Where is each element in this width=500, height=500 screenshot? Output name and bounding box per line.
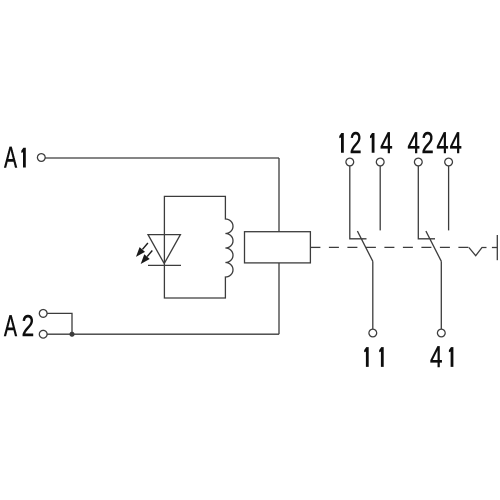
contact blade 1: [357, 231, 372, 261]
terminal 42 circle: [414, 158, 422, 166]
svg-text:4: 4: [408, 127, 420, 160]
svg-text:4: 4: [430, 341, 442, 374]
svg-text:A: A: [4, 310, 17, 343]
terminal A2 lower circle: [39, 330, 47, 338]
contact blade 2: [426, 231, 441, 261]
coil box with inductor bumps: [164, 196, 233, 298]
terminal 11 circle: [369, 329, 377, 337]
terminal A1 circle: [37, 154, 45, 162]
mechanical link end tick: [492, 247, 497, 249]
svg-text:2: 2: [422, 127, 434, 160]
wire common 41 down: [440, 261, 442, 329]
wire relay coil to bottom rail: [278, 263, 280, 334]
terminal 14 circle: [376, 158, 384, 166]
svg-text:2: 2: [350, 127, 362, 160]
LED arrow 2: [142, 251, 152, 263]
junction node A2: [69, 332, 74, 337]
terminal 44 circle: [445, 158, 453, 166]
label 14: [370, 133, 375, 153]
mechanical link solid stub: [310, 246, 320, 248]
wire A1 horizontal: [45, 157, 279, 159]
wire A2 upper jumper: [47, 313, 72, 334]
svg-text:2: 2: [22, 310, 35, 343]
terminal 41 circle: [437, 329, 445, 337]
wire terminal 44 down: [448, 166, 450, 230]
label 12: [339, 133, 344, 153]
label 11: [364, 347, 369, 367]
relay coil box K1: [245, 232, 311, 263]
LED D1 triangle: [148, 235, 180, 264]
svg-text:4: 4: [380, 127, 392, 160]
wire A1 vertical down to relay coil: [278, 158, 280, 232]
svg-text:A: A: [4, 142, 17, 175]
LED cathode bar: [148, 264, 181, 266]
svg-text:4: 4: [437, 127, 449, 160]
mechanical link end bar: [496, 235, 498, 260]
wire common 11 down: [372, 261, 374, 329]
wire terminal 14 down: [379, 166, 381, 230]
wire A2 bottom rail: [47, 333, 279, 335]
wire terminal 42 down: [418, 166, 435, 239]
terminal A2 upper circle: [39, 310, 47, 318]
terminal 12 circle: [346, 158, 354, 166]
svg-text:4: 4: [450, 127, 462, 160]
mechanical link V notch: [469, 248, 487, 256]
LED arrow 1: [137, 243, 148, 255]
wire terminal 12 down: [350, 166, 367, 239]
mechanical link dashed line: [329, 246, 469, 248]
